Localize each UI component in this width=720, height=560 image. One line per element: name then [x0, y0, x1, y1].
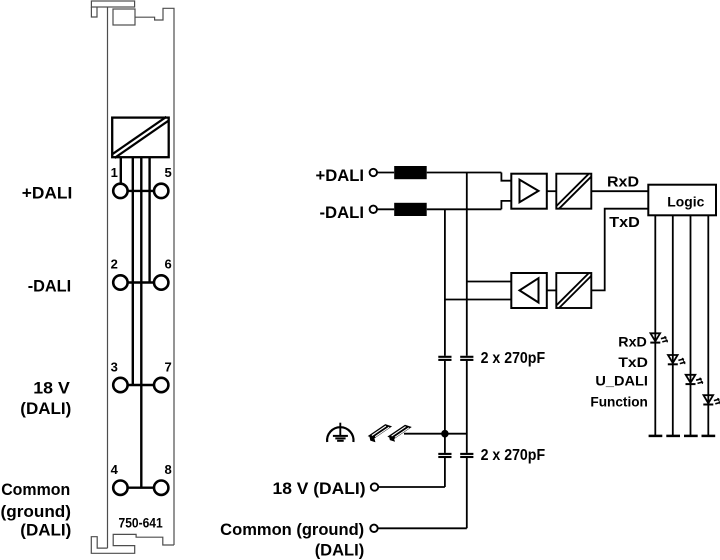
- wire +DALI bus to receive amp upper input: [467, 281, 512, 283]
- rail segment left: [369, 425, 390, 438]
- contact pin 3: [113, 378, 127, 392]
- wire fork -DALI into amplifier: [501, 201, 511, 209]
- svg-text:6: 6: [165, 257, 172, 272]
- logic pin line 2: [672, 215, 674, 436]
- svg-text:-DALI: -DALI: [320, 204, 365, 222]
- capacitor C3 (left 270pF lower): [438, 454, 451, 457]
- contact pin 2: [113, 275, 127, 289]
- svg-text:8: 8: [165, 462, 172, 477]
- capacitor C2 (right 270pF upper): [460, 357, 473, 360]
- contact block (box with double diagonal): [112, 118, 169, 158]
- pin line 3 end tick: [684, 435, 698, 438]
- svg-text:Common: Common: [1, 481, 70, 499]
- node -DALI bus tap: [444, 209, 446, 299]
- LED D2 TxD: [668, 355, 685, 364]
- logic block U3: [648, 185, 716, 216]
- DIN rail symbol: [369, 425, 410, 442]
- svg-text:RxD: RxD: [607, 173, 639, 190]
- svg-text:18 V (DALI): 18 V (DALI): [273, 480, 366, 498]
- module bottom foot profile: [91, 534, 174, 553]
- contact pin 6: [154, 275, 168, 289]
- pin line 2 end tick: [666, 435, 680, 438]
- logic pin line 1: [654, 215, 656, 436]
- wire TxD isolator up to logic: [591, 209, 648, 291]
- module top mounting bar: [91, 1, 134, 7]
- node +DALI bus tap: [466, 173, 468, 282]
- module left edge: [107, 7, 109, 548]
- svg-text:5: 5: [165, 165, 172, 180]
- svg-text:-DALI: -DALI: [28, 277, 72, 295]
- wire +DALI line to fork: [427, 172, 502, 174]
- wire Common to right bus: [378, 527, 467, 529]
- terminal +DALI: [370, 169, 377, 176]
- rail segment right: [389, 426, 410, 439]
- contact pin 1: [113, 184, 127, 198]
- svg-text:TxD: TxD: [618, 354, 648, 370]
- svg-text:U_DALI: U_DALI: [595, 373, 648, 389]
- contact pin 7: [154, 378, 168, 392]
- svg-text:18 V: 18 V: [33, 380, 70, 398]
- svg-text:(DALI): (DALI): [20, 400, 71, 418]
- terminal Common: [370, 525, 377, 532]
- LED D3 U_DALI: [686, 375, 703, 384]
- svg-text:2 x 270pF: 2 x 270pF: [481, 350, 545, 367]
- contact pin 4: [113, 481, 127, 495]
- wire -DALI bus to receive amp lower input: [445, 299, 511, 301]
- contact pin 8: [154, 481, 168, 495]
- svg-text:+DALI: +DALI: [316, 167, 365, 185]
- isolator U1 (transmit opto): [556, 174, 591, 209]
- node junction dot: [441, 430, 449, 438]
- svg-text:(ground): (ground): [1, 503, 72, 521]
- capacitor C1 (left 270pF upper): [438, 357, 451, 360]
- LED D4 Function: [703, 395, 720, 404]
- resistor R1 (+DALI series): [394, 166, 427, 179]
- functional earth symbol: [327, 423, 353, 442]
- amplifier A2 (receive): [511, 273, 547, 308]
- wire -DALI line to fork: [427, 208, 502, 210]
- svg-text:(DALI): (DALI): [315, 542, 365, 560]
- wire 18 V to left bus: [378, 486, 445, 488]
- wire rail to ground junction: [404, 433, 467, 435]
- wire A2 to isolator U2: [547, 289, 557, 291]
- svg-text:+DALI: +DALI: [22, 185, 73, 203]
- wire terminal to resistor R2: [377, 208, 394, 210]
- logic pin line 4: [707, 215, 709, 436]
- jumper link pins 4-8: [128, 487, 154, 489]
- pin line 4 end tick: [702, 435, 716, 438]
- wire box to pin 1: [120, 157, 122, 184]
- wire terminal to resistor R1: [377, 172, 394, 174]
- wire box to row 4 link: [140, 157, 142, 488]
- wire fork +DALI into amplifier: [501, 173, 511, 181]
- wire box to row 2 link: [148, 157, 150, 282]
- svg-text:Function: Function: [590, 393, 648, 409]
- svg-text:7: 7: [165, 360, 172, 375]
- wire RxD isolator to logic: [591, 190, 648, 192]
- svg-text:2: 2: [111, 257, 118, 272]
- capacitor C4 (right 270pF lower): [460, 454, 473, 457]
- svg-text:(DALI): (DALI): [20, 522, 71, 540]
- terminal 18 V: [371, 483, 378, 490]
- wire box to row 3 link: [132, 157, 134, 385]
- module top-right step profile: [135, 8, 174, 545]
- isolator U2 (receive opto): [556, 273, 591, 308]
- LED D1 RxD: [650, 333, 667, 342]
- logic pin line 3: [690, 215, 692, 436]
- svg-text:2 x 270pF: 2 x 270pF: [481, 447, 545, 464]
- jumper link pins 3-7: [128, 384, 154, 386]
- resistor R2 (-DALI series): [394, 203, 427, 216]
- svg-text:4: 4: [111, 462, 119, 477]
- terminal -DALI: [370, 206, 377, 213]
- pin line 1 end tick: [649, 435, 663, 438]
- jumper link pins 2-6: [128, 281, 154, 283]
- svg-text:RxD: RxD: [618, 333, 647, 349]
- module top-left hook: [91, 7, 97, 17]
- svg-text:Logic: Logic: [667, 193, 704, 209]
- svg-text:3: 3: [111, 360, 118, 375]
- wire A1 to isolator: [547, 190, 557, 192]
- jumper link pins 1-5: [128, 190, 154, 192]
- svg-text:TxD: TxD: [609, 214, 640, 231]
- svg-text:1: 1: [111, 165, 118, 180]
- amplifier A1 (transmit): [511, 174, 547, 209]
- module latch block: [113, 9, 135, 25]
- contact pin 5: [154, 184, 168, 198]
- right bus continuation: [466, 282, 468, 356]
- left bus continuation: [444, 300, 446, 356]
- svg-text:Common (ground): Common (ground): [220, 521, 364, 539]
- svg-text:750-641: 750-641: [119, 515, 163, 531]
